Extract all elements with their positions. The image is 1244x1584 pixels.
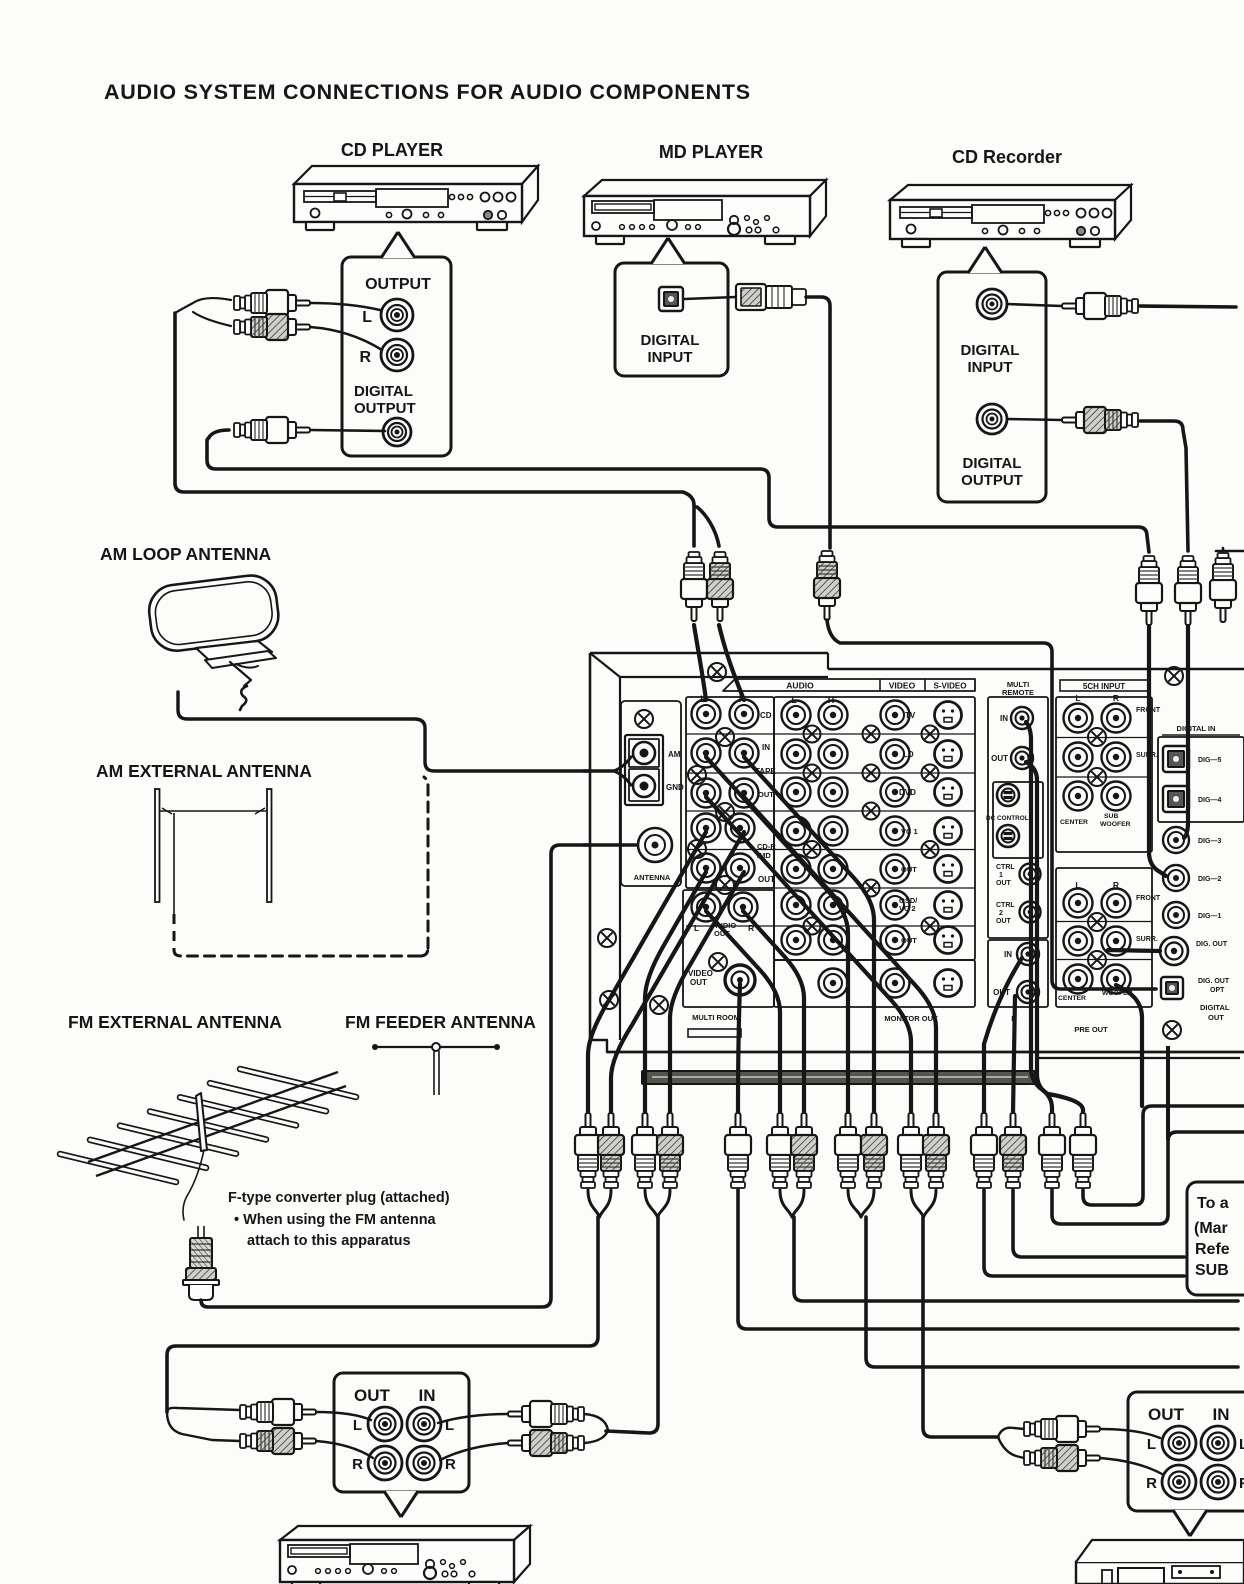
svg-text:To a: To a xyxy=(1197,1195,1229,1212)
svg-text:LD: LD xyxy=(903,750,914,759)
svg-text:VIDEO: VIDEO xyxy=(889,681,916,691)
svg-text:DIGITAL: DIGITAL xyxy=(1200,1003,1230,1012)
svg-text:OUT: OUT xyxy=(996,880,1012,887)
svg-text:DIGITAL: DIGITAL xyxy=(641,332,700,349)
svg-text:DIG. OUT: DIG. OUT xyxy=(1198,978,1230,985)
svg-text:R: R xyxy=(828,695,835,705)
svg-text:DIGITAL: DIGITAL xyxy=(354,383,413,400)
svg-text:REMOTE: REMOTE xyxy=(1002,688,1034,697)
svg-text:DIGITAL: DIGITAL xyxy=(963,455,1022,472)
svg-text:DC CONTROL: DC CONTROL xyxy=(986,815,1029,822)
svg-text:FRONT: FRONT xyxy=(1136,895,1161,902)
svg-text:2: 2 xyxy=(999,910,1003,917)
svg-text:L: L xyxy=(362,309,372,326)
svg-text:OUT: OUT xyxy=(758,790,774,799)
svg-text:INPUT: INPUT xyxy=(648,349,693,366)
svg-text:R: R xyxy=(359,349,371,366)
svg-text:GND: GND xyxy=(666,783,684,792)
svg-text:AUDIO: AUDIO xyxy=(786,681,814,691)
svg-text:IN: IN xyxy=(1004,950,1012,959)
svg-text:CD PLAYER: CD PLAYER xyxy=(341,140,443,160)
svg-text:L: L xyxy=(1075,693,1080,703)
svg-text:OUTPUT: OUTPUT xyxy=(365,276,431,293)
svg-text:OPT: OPT xyxy=(1210,987,1225,994)
svg-text:L: L xyxy=(1147,1436,1156,1453)
svg-text:SURR.: SURR. xyxy=(1136,936,1158,943)
svg-text:AM: AM xyxy=(668,750,681,759)
svg-text:L: L xyxy=(1239,1436,1244,1453)
svg-text:DVD: DVD xyxy=(899,788,916,797)
svg-text:VIDEO: VIDEO xyxy=(688,969,713,978)
svg-text:TV: TV xyxy=(905,711,916,720)
svg-text:R: R xyxy=(352,1456,363,1473)
svg-text:PRE OUT: PRE OUT xyxy=(1074,1025,1108,1034)
svg-text:CTRL: CTRL xyxy=(996,864,1015,871)
svg-text:AM LOOP ANTENNA: AM LOOP ANTENNA xyxy=(100,544,271,564)
svg-text:OUT: OUT xyxy=(991,754,1008,763)
svg-text:FM EXTERNAL ANTENNA: FM EXTERNAL ANTENNA xyxy=(68,1012,282,1032)
svg-text:L: L xyxy=(694,923,699,933)
svg-text:IN: IN xyxy=(419,1386,436,1405)
svg-text:VC 1: VC 1 xyxy=(901,827,918,836)
svg-text:IN: IN xyxy=(1000,714,1008,723)
svg-text:CENTER: CENTER xyxy=(1058,995,1086,1002)
svg-text:DIGITAL IN: DIGITAL IN xyxy=(1177,724,1216,733)
svg-text:SUB: SUB xyxy=(1195,1262,1229,1279)
svg-text:DIGITAL: DIGITAL xyxy=(961,342,1020,359)
svg-text:1: 1 xyxy=(999,872,1003,879)
svg-text:DIG. OUT: DIG. OUT xyxy=(1196,941,1228,948)
svg-text:CENTER: CENTER xyxy=(1060,819,1088,826)
svg-text:R: R xyxy=(445,1456,456,1473)
svg-text:AM EXTERNAL ANTENNA: AM EXTERNAL ANTENNA xyxy=(96,761,312,781)
svg-text:MULTI ROOM: MULTI ROOM xyxy=(692,1013,740,1022)
svg-text:DIG—1: DIG—1 xyxy=(1198,913,1221,920)
svg-text:OUT: OUT xyxy=(1148,1405,1185,1424)
svg-text:INPUT: INPUT xyxy=(968,359,1013,376)
svg-text:OUTPUT: OUTPUT xyxy=(961,472,1023,489)
svg-text:FM FEEDER ANTENNA: FM FEEDER ANTENNA xyxy=(345,1012,536,1032)
svg-text:DIG—3: DIG—3 xyxy=(1198,838,1221,845)
svg-text:DIG—2: DIG—2 xyxy=(1198,876,1221,883)
svg-text:MD PLAYER: MD PLAYER xyxy=(659,142,763,162)
svg-text:L: L xyxy=(791,695,797,705)
svg-text:F-type converter plug (attache: F-type converter plug (attached) xyxy=(228,1190,450,1206)
svg-text:OUT: OUT xyxy=(901,936,917,945)
svg-text:OUT: OUT xyxy=(996,918,1012,925)
svg-text:(Mar: (Mar xyxy=(1194,1220,1228,1237)
svg-text:5CH INPUT: 5CH INPUT xyxy=(1083,682,1125,691)
svg-text:R: R xyxy=(1146,1475,1157,1492)
svg-text:MONITOR OUT: MONITOR OUT xyxy=(884,1014,938,1023)
svg-text:L: L xyxy=(353,1417,362,1434)
svg-text:DIG—5: DIG—5 xyxy=(1198,757,1221,764)
svg-text:S-VIDEO: S-VIDEO xyxy=(934,682,967,691)
svg-text:CD: CD xyxy=(760,711,772,720)
svg-text:CD Recorder: CD Recorder xyxy=(952,147,1062,167)
svg-text:attach to this apparatus: attach to this apparatus xyxy=(247,1233,411,1249)
svg-text:OUT: OUT xyxy=(758,875,775,884)
svg-text:OUT: OUT xyxy=(1208,1013,1224,1022)
svg-text:Refe: Refe xyxy=(1195,1241,1230,1258)
svg-text:IN: IN xyxy=(762,743,770,752)
svg-text:R: R xyxy=(1113,693,1119,703)
svg-text:CTRL: CTRL xyxy=(996,902,1015,909)
svg-text:R: R xyxy=(1239,1475,1244,1492)
svg-text:VC 2: VC 2 xyxy=(899,904,916,913)
svg-text:DIG—4: DIG—4 xyxy=(1198,797,1221,804)
svg-text:OUT: OUT xyxy=(690,978,707,987)
svg-text:OUT: OUT xyxy=(354,1386,391,1405)
svg-text:ANTENNA: ANTENNA xyxy=(634,873,671,882)
svg-text:SUB: SUB xyxy=(1104,813,1118,820)
svg-text:OUT: OUT xyxy=(901,865,917,874)
svg-text:• When using the FM antenna: • When using the FM antenna xyxy=(234,1212,437,1228)
svg-text:OUTPUT: OUTPUT xyxy=(354,400,416,417)
svg-text:AUDIO SYSTEM CONNECTIONS FOR A: AUDIO SYSTEM CONNECTIONS FOR AUDIO COMPO… xyxy=(104,80,751,104)
svg-text:IN: IN xyxy=(1213,1405,1230,1424)
svg-text:WOOFER: WOOFER xyxy=(1100,821,1131,828)
